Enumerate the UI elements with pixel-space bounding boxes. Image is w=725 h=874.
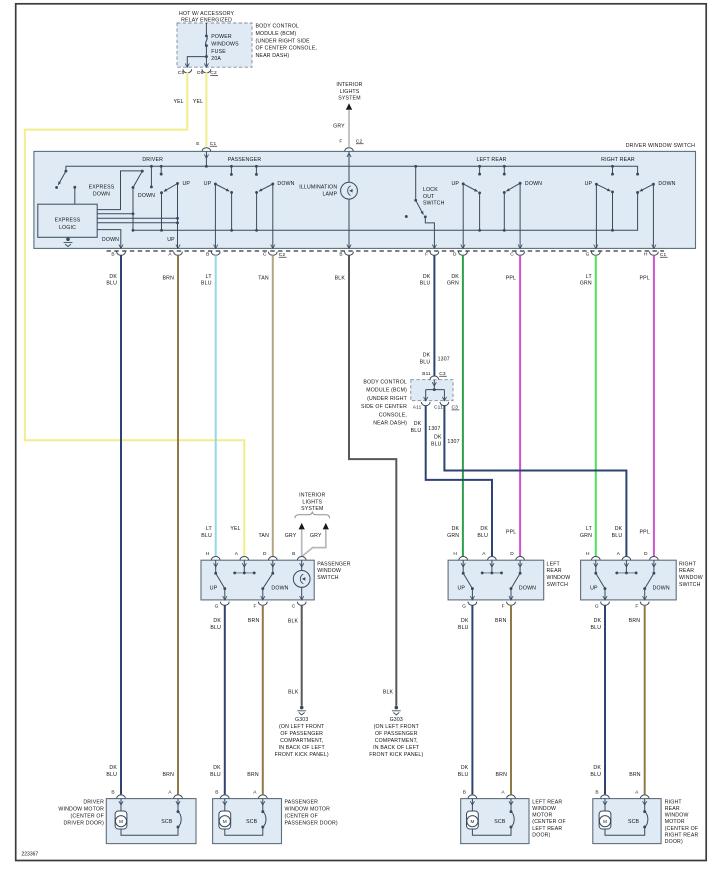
svg-text:SCB: SCB <box>246 819 258 825</box>
svg-text:POWER: POWER <box>211 34 232 40</box>
ground G303 <box>395 706 399 710</box>
svg-text:YEL: YEL <box>193 99 203 105</box>
wire (lamp to pin B BLK exit) <box>348 199 350 248</box>
svg-text:REAR: REAR <box>665 806 680 812</box>
svg-text:BRN: BRN <box>248 618 260 624</box>
svg-text:(CENTER OF: (CENTER OF <box>532 819 566 825</box>
svg-text:DK: DK <box>423 274 431 280</box>
wire rail (down rail inside driver switch) <box>133 193 638 231</box>
svg-text:BRN: BRN <box>163 772 175 778</box>
svg-text:F: F <box>635 603 638 609</box>
svg-text:DOWN: DOWN <box>271 586 288 592</box>
pin H exit (driver switch) <box>652 245 656 249</box>
svg-text:A: A <box>482 551 486 557</box>
wire DK BLU 1307 (A11 to left rear switch pin A) <box>426 405 492 556</box>
svg-text:WINDOWS: WINDOWS <box>211 41 239 47</box>
pin F exit (driver switch) <box>432 245 436 249</box>
svg-text:DK: DK <box>109 765 117 771</box>
wire GRY (passenger switch pin B to interior lights, straight) <box>301 529 303 556</box>
svg-text:GRN: GRN <box>580 281 592 287</box>
connector row C1/C2 (dashed) <box>107 250 665 252</box>
svg-text:B: B <box>215 789 218 795</box>
svg-text:DK: DK <box>213 765 221 771</box>
svg-text:DRIVER WINDOW SWITCH: DRIVER WINDOW SWITCH <box>626 143 695 149</box>
svg-text:BLK: BLK <box>383 690 394 696</box>
fuse POWER WINDOWS FUSE 20A <box>205 23 207 35</box>
wire branch to pin C5 <box>187 57 206 68</box>
wire express logic line 3 <box>97 217 177 219</box>
svg-text:LT: LT <box>206 526 213 532</box>
circuit breaker SCB <box>262 799 264 812</box>
svg-text:C: C <box>263 252 267 258</box>
svg-text:SWITCH: SWITCH <box>547 582 569 588</box>
svg-text:DK: DK <box>461 618 469 624</box>
svg-text:OF PASSENGER: OF PASSENGER <box>280 731 323 737</box>
svg-text:DOWN: DOWN <box>93 191 110 197</box>
svg-text:20A: 20A <box>211 56 221 62</box>
svg-text:F: F <box>339 139 342 145</box>
svg-text:DK: DK <box>480 526 488 532</box>
svg-text:LAMP: LAMP <box>322 191 337 197</box>
svg-text:H: H <box>644 252 648 258</box>
svg-text:(CENTER OF: (CENTER OF <box>665 826 699 832</box>
pin C exit (driver switch) <box>518 245 522 249</box>
wire DK GRN (pin D to left rear switch) <box>462 255 464 556</box>
svg-text:DOOR): DOOR) <box>665 839 683 845</box>
wire express logic line 4 <box>97 222 177 224</box>
svg-text:(ON LEFT FRONT: (ON LEFT FRONT <box>374 724 420 730</box>
svg-text:BLU: BLU <box>411 428 422 434</box>
pin B exit (driver switch) <box>347 245 351 249</box>
svg-text:EXPRESS: EXPRESS <box>55 218 81 224</box>
svg-text:A: A <box>635 789 639 795</box>
left rear window switch box <box>448 560 544 600</box>
pin A exit (driver switch) <box>176 245 180 249</box>
driver window switch box <box>34 151 696 248</box>
svg-text:GRN: GRN <box>447 281 459 287</box>
motor M <box>471 799 473 811</box>
motor M <box>120 799 122 811</box>
svg-text:A: A <box>617 551 621 557</box>
wire GRY (branch, diagonal) <box>302 529 326 556</box>
svg-text:1307: 1307 <box>438 356 450 362</box>
wire express logic line 2 <box>97 213 133 215</box>
svg-text:LT: LT <box>586 274 593 280</box>
svg-text:G: G <box>215 603 219 609</box>
svg-text:DK: DK <box>414 421 422 427</box>
svg-text:CONSOLE,: CONSOLE, <box>379 412 407 418</box>
pin B entry (motor) <box>468 795 477 799</box>
wire DK BLU (passenger switch G to passenger motor) <box>224 605 226 794</box>
wire (down pivot to rail) <box>132 188 134 231</box>
pin B entry (motor) <box>220 795 229 799</box>
wire PPL (pin H to right rear switch) <box>653 255 655 556</box>
svg-text:GRN: GRN <box>580 533 592 539</box>
pin B entry (passenger switch) <box>297 557 306 561</box>
svg-text:UP: UP <box>452 181 460 187</box>
svg-text:PPL: PPL <box>506 529 516 535</box>
svg-text:HOT W/ ACCESSORY: HOT W/ ACCESSORY <box>179 11 235 17</box>
svg-text:MOTOR: MOTOR <box>665 819 685 825</box>
svg-text:GRY: GRY <box>285 533 297 539</box>
svg-text:F: F <box>425 252 428 258</box>
switch PASSENGER UP (in driver switch) <box>230 166 232 174</box>
pin F exit (passenger switch) <box>261 596 265 600</box>
pin A entry (passenger switch) <box>240 557 249 561</box>
svg-text:(CENTER OF: (CENTER OF <box>71 813 105 819</box>
switch LEFT REAR UP (in driver switch) <box>479 166 481 174</box>
svg-text:EXPRESS: EXPRESS <box>89 185 115 191</box>
svg-text:GRY: GRY <box>310 533 322 539</box>
wire bus (supply rail inside driver switch) <box>66 166 638 174</box>
svg-text:LT: LT <box>206 274 213 280</box>
switch LEFT REAR DOWN (in driver switch) <box>503 166 505 174</box>
svg-text:FUSE: FUSE <box>211 49 226 55</box>
svg-text:D5: D5 <box>197 70 204 76</box>
svg-text:BLU: BLU <box>420 359 431 365</box>
svg-text:B: B <box>463 789 466 795</box>
svg-text:PPL: PPL <box>640 529 650 535</box>
svg-text:RIGHT: RIGHT <box>679 561 697 567</box>
pin H entry (passenger switch) <box>211 557 220 561</box>
pin H entry (right rear switch) <box>591 557 600 561</box>
feed bar <box>482 572 501 574</box>
switch RIGHT REAR UP (in driver switch) <box>612 166 614 174</box>
svg-text:LOGIC: LOGIC <box>59 225 76 231</box>
svg-text:ILLUMINATION: ILLUMINATION <box>299 185 337 191</box>
window motor box <box>593 799 661 844</box>
pin F exit (left rear switch) <box>509 596 513 600</box>
pin B exit (driver switch) <box>214 245 218 249</box>
switch PASSENGER DOWN (in driver switch) <box>255 166 257 174</box>
svg-text:1307: 1307 <box>428 426 440 432</box>
switch DOWN (left rear) <box>519 572 522 575</box>
svg-text:B: B <box>292 551 295 557</box>
svg-text:BLU: BLU <box>420 281 431 287</box>
svg-text:H: H <box>206 551 210 557</box>
svg-text:BLU: BLU <box>458 772 469 778</box>
svg-text:LT: LT <box>586 526 593 532</box>
svg-text:TAN: TAN <box>258 533 269 539</box>
svg-text:B: B <box>111 789 114 795</box>
svg-text:NEAR DASH): NEAR DASH) <box>256 53 290 59</box>
ground G303 <box>300 706 304 710</box>
svg-text:GRY: GRY <box>333 123 345 129</box>
svg-text:BRN: BRN <box>247 772 259 778</box>
svg-text:WINDOW MOTOR: WINDOW MOTOR <box>58 806 104 812</box>
svg-text:DOWN: DOWN <box>138 193 155 199</box>
circuit breaker SCB <box>644 799 646 812</box>
connector pins C5 / D5 / C2 at fuse box <box>185 63 189 67</box>
pin A entry (motor) <box>174 795 183 799</box>
svg-text:BLK: BLK <box>288 690 299 696</box>
svg-text:DK: DK <box>423 353 431 359</box>
svg-text:223367: 223367 <box>22 852 39 858</box>
pin G exit (right rear switch) <box>603 596 607 600</box>
svg-text:C: C <box>292 603 296 609</box>
svg-text:LIGHTS: LIGHTS <box>340 89 360 95</box>
svg-text:SWITCH: SWITCH <box>317 575 339 581</box>
feed bar <box>617 572 636 574</box>
svg-text:BODY CONTROL: BODY CONTROL <box>256 24 300 30</box>
svg-text:WINDOW: WINDOW <box>532 806 556 812</box>
svg-text:DK: DK <box>213 618 221 624</box>
svg-text:DRIVER: DRIVER <box>83 799 104 805</box>
svg-text:DK: DK <box>594 618 602 624</box>
wire (down blade to express logic line 1) <box>97 171 142 210</box>
svg-text:BLU: BLU <box>201 281 212 287</box>
passenger window switch box <box>201 560 314 600</box>
svg-text:UP: UP <box>167 237 175 243</box>
body control module (BCM) dashed box <box>411 380 453 401</box>
svg-text:BRN: BRN <box>495 618 507 624</box>
switch LOCK OUT <box>415 166 417 200</box>
svg-text:OF CENTER CONSOLE,: OF CENTER CONSOLE, <box>256 46 317 52</box>
wire BLK (passenger switch C to ground G303) <box>301 605 303 706</box>
svg-text:DOWN: DOWN <box>102 237 119 243</box>
svg-text:D: D <box>510 551 514 557</box>
svg-text:WINDOW: WINDOW <box>317 568 341 574</box>
wire LT BLU (pin B to passenger switch) <box>215 255 217 556</box>
svg-text:WINDOW MOTOR: WINDOW MOTOR <box>285 806 331 812</box>
svg-text:INTERIOR: INTERIOR <box>299 493 325 499</box>
svg-text:PPL: PPL <box>640 275 650 281</box>
svg-text:IN BACK OF LEFT: IN BACK OF LEFT <box>373 745 420 751</box>
motor M <box>604 799 606 811</box>
pin D entry (right rear switch) <box>650 557 659 561</box>
wire express logic line 5 (to pin B exit) <box>97 230 121 249</box>
circuit breaker SCB <box>177 799 179 812</box>
svg-text:(UNDER RIGHT: (UNDER RIGHT <box>367 396 408 402</box>
svg-text:DOWN: DOWN <box>658 181 675 187</box>
svg-text:DOOR): DOOR) <box>532 832 550 838</box>
express logic module U1 <box>38 204 97 237</box>
svg-text:WINDOW: WINDOW <box>665 813 689 819</box>
svg-text:A: A <box>253 789 257 795</box>
pin D entry (passenger switch) <box>268 557 277 561</box>
svg-text:BLU: BLU <box>210 625 221 631</box>
svg-text:BLU: BLU <box>431 441 442 447</box>
svg-text:LEFT REAR: LEFT REAR <box>532 799 562 805</box>
pin A entry (motor) <box>507 795 516 799</box>
pin F exit (right rear switch) <box>643 596 647 600</box>
svg-text:(CENTER OF: (CENTER OF <box>285 813 319 819</box>
svg-text:A: A <box>168 252 172 258</box>
svg-text:(ON LEFT FRONT: (ON LEFT FRONT <box>279 724 325 730</box>
wire GRY (illumination feed to interior lights) <box>348 110 350 147</box>
svg-text:BLU: BLU <box>106 281 117 287</box>
svg-text:PPL: PPL <box>506 275 516 281</box>
pin A entry (motor) <box>258 795 267 799</box>
svg-text:FRONT KICK PANEL): FRONT KICK PANEL) <box>275 752 329 758</box>
svg-text:BLU: BLU <box>458 625 469 631</box>
feed bar <box>235 572 255 574</box>
svg-text:BRN: BRN <box>629 618 641 624</box>
svg-text:GRN: GRN <box>447 533 459 539</box>
svg-text:H: H <box>453 551 457 557</box>
svg-text:WINDOW: WINDOW <box>679 575 703 581</box>
svg-text:RIGHT REAR: RIGHT REAR <box>601 157 635 163</box>
svg-text:PASSENGER DOOR): PASSENGER DOOR) <box>285 820 338 826</box>
svg-text:DK: DK <box>451 274 459 280</box>
wire YEL (D5 to driver switch pin E) <box>205 72 207 146</box>
svg-text:DOWN: DOWN <box>653 586 670 592</box>
svg-text:MOTOR: MOTOR <box>532 813 552 819</box>
svg-text:BLU: BLU <box>612 533 623 539</box>
wire PPL (pin C to left rear switch) <box>519 255 521 556</box>
svg-text:G303: G303 <box>295 717 308 723</box>
switch DOWN (passenger) <box>271 572 274 575</box>
svg-text:DRIVER DOOR): DRIVER DOOR) <box>64 820 105 826</box>
svg-text:YEL: YEL <box>174 99 184 105</box>
svg-text:E: E <box>196 141 199 147</box>
svg-text:DK: DK <box>461 765 469 771</box>
wire DK BLU (left rear G to left rear motor) <box>471 605 473 794</box>
svg-text:DRIVER: DRIVER <box>142 157 163 163</box>
svg-text:LEFT REAR: LEFT REAR <box>532 826 562 832</box>
switch UP (right rear) <box>594 572 597 575</box>
svg-text:PASSENGER: PASSENGER <box>317 561 351 567</box>
pin D exit (driver switch) <box>461 245 465 249</box>
pin F entry (gray, illumination) <box>345 148 354 152</box>
pin B entry (motor) <box>117 795 126 799</box>
svg-text:REAR: REAR <box>679 568 694 574</box>
svg-text:DOWN: DOWN <box>277 181 294 187</box>
svg-text:COMPARTMENT,: COMPARTMENT, <box>280 738 323 744</box>
switch UP (left rear) <box>462 572 465 575</box>
svg-text:D: D <box>263 551 267 557</box>
svg-text:YEL: YEL <box>230 526 240 532</box>
switch EXPRESS (auto-down) <box>58 171 66 185</box>
svg-text:BLU: BLU <box>106 772 117 778</box>
svg-text:RELAY ENERGIZED: RELAY ENERGIZED <box>181 17 232 23</box>
svg-text:UP: UP <box>585 181 593 187</box>
svg-text:M: M <box>470 819 474 824</box>
circuit breaker SCB <box>510 799 512 812</box>
pin A entry (right rear switch) <box>622 557 631 561</box>
svg-text:UP: UP <box>183 181 191 187</box>
svg-text:SWITCH: SWITCH <box>679 582 701 588</box>
svg-text:B: B <box>595 789 598 795</box>
svg-text:BLK: BLK <box>288 619 299 625</box>
wire DK BLU (pin F to BCM) <box>433 255 435 376</box>
svg-text:B: B <box>206 252 209 258</box>
svg-text:LOCK: LOCK <box>423 187 438 193</box>
pin D entry (left rear switch) <box>516 557 525 561</box>
svg-text:BLU: BLU <box>210 772 221 778</box>
svg-text:A: A <box>168 789 172 795</box>
svg-text:C11: C11 <box>434 405 443 411</box>
wire BLK (pin B to ground G303) <box>349 255 396 706</box>
svg-text:LIGHTS: LIGHTS <box>302 499 322 505</box>
svg-text:IN BACK OF LEFT: IN BACK OF LEFT <box>279 745 326 751</box>
pin G exit (left rear switch) <box>470 596 474 600</box>
svg-text:MODULE (BCM): MODULE (BCM) <box>256 31 297 37</box>
svg-text:DK: DK <box>109 274 117 280</box>
wire DK BLU (pin B to driver motor) <box>120 255 122 794</box>
window motor box <box>461 799 529 844</box>
svg-text:A11: A11 <box>413 405 422 411</box>
svg-text:C5: C5 <box>178 70 185 76</box>
svg-text:UP: UP <box>204 181 212 187</box>
svg-text:OUT: OUT <box>423 194 435 200</box>
pin A entry (motor) <box>640 795 649 799</box>
wire (motor to breaker, internal) <box>605 827 645 835</box>
wire BRN (left rear F to left rear motor) <box>510 605 512 794</box>
svg-text:PASSENGER: PASSENGER <box>285 799 319 805</box>
wire (motor to breaker, internal) <box>472 827 511 835</box>
motor M <box>224 799 226 811</box>
switch DOWN (right rear) <box>652 572 655 575</box>
svg-text:DK: DK <box>593 765 601 771</box>
svg-text:C: C <box>510 252 514 258</box>
switch DRIVER UP <box>160 166 162 174</box>
svg-text:1307: 1307 <box>447 439 459 445</box>
svg-text:G: G <box>462 603 466 609</box>
svg-text:B: B <box>339 252 342 258</box>
pin G exit (driver switch) <box>594 245 598 249</box>
switch DRIVER DOWN <box>150 166 152 187</box>
svg-text:M: M <box>223 819 227 824</box>
svg-text:SCB: SCB <box>494 819 506 825</box>
svg-text:G: G <box>595 603 599 609</box>
pin B exit (driver switch) <box>119 245 123 249</box>
svg-text:UP: UP <box>458 586 466 592</box>
svg-text:DK: DK <box>434 435 442 441</box>
svg-text:F: F <box>502 603 505 609</box>
wire (lockout to pin F exit) <box>425 217 434 249</box>
wire LT GRN (pin G to right rear switch) <box>595 255 597 556</box>
svg-text:G303: G303 <box>390 717 403 723</box>
wire (motor to breaker, internal) <box>225 827 263 835</box>
svg-text:DK: DK <box>615 526 623 532</box>
svg-text:SWITCH: SWITCH <box>423 201 445 207</box>
ground (express logic) <box>66 237 70 241</box>
svg-text:FRONT KICK PANEL): FRONT KICK PANEL) <box>369 752 423 758</box>
switch RIGHT REAR DOWN (in driver switch) <box>640 184 654 191</box>
wire (motor to breaker, internal) <box>121 827 178 835</box>
pin C exit (driver switch) <box>271 245 275 249</box>
wire (up pivot to pin A exit) <box>177 184 179 249</box>
svg-text:SYSTEM: SYSTEM <box>338 96 360 102</box>
pin H entry (left rear switch) <box>459 557 468 561</box>
svg-text:BRN: BRN <box>496 772 508 778</box>
svg-text:BODY CONTROL: BODY CONTROL <box>363 380 407 386</box>
svg-text:MODULE (BCM): MODULE (BCM) <box>366 388 407 394</box>
svg-text:BRN: BRN <box>163 275 175 281</box>
svg-text:SIDE OF CENTER: SIDE OF CENTER <box>361 404 407 410</box>
wire YEL (C5 to passenger switch pin A, around left side) <box>25 72 245 556</box>
svg-text:G: G <box>586 252 590 258</box>
svg-text:SCB: SCB <box>161 819 173 825</box>
svg-text:M: M <box>119 819 123 824</box>
svg-text:DOWN: DOWN <box>519 586 536 592</box>
svg-text:BLU: BLU <box>591 625 602 631</box>
svg-text:WINDOW: WINDOW <box>547 575 571 581</box>
wire TAN (pin C to passenger switch) <box>272 255 274 556</box>
pin B entry (motor) <box>601 795 610 799</box>
svg-text:NEAR DASH): NEAR DASH) <box>373 421 407 427</box>
svg-text:B11: B11 <box>422 371 431 377</box>
wire BRN (pin A to driver motor) <box>177 255 179 794</box>
svg-text:BLU: BLU <box>590 772 601 778</box>
svg-text:LEFT: LEFT <box>547 561 561 567</box>
brace <box>295 512 330 518</box>
svg-text:BLU: BLU <box>201 533 212 539</box>
svg-text:SCB: SCB <box>628 819 640 825</box>
svg-text:BLK: BLK <box>335 275 346 281</box>
svg-text:A: A <box>501 789 505 795</box>
